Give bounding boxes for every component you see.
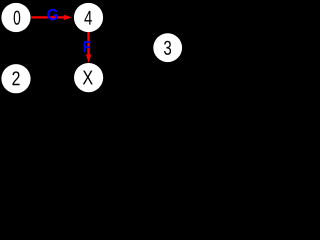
wire: edge 4 to X <box>87 32 89 55</box>
node 4 label <box>84 11 91 25</box>
edge label F <box>84 41 91 52</box>
arrowhead: edge 4 to X <box>86 55 91 63</box>
node 3 label <box>164 41 171 55</box>
node 4 <box>74 3 103 32</box>
background <box>0 0 188 101</box>
arrowhead: edge 0 to 4 <box>64 15 72 20</box>
node X <box>74 63 103 92</box>
node 0 <box>1 3 30 32</box>
wire: edge 0 to 4 <box>31 16 64 18</box>
node 2 label <box>12 71 19 85</box>
node 2 <box>1 64 30 93</box>
node 3 <box>153 33 182 62</box>
edge label G <box>47 9 57 20</box>
node X label <box>83 71 93 85</box>
node 0 label <box>14 11 21 25</box>
